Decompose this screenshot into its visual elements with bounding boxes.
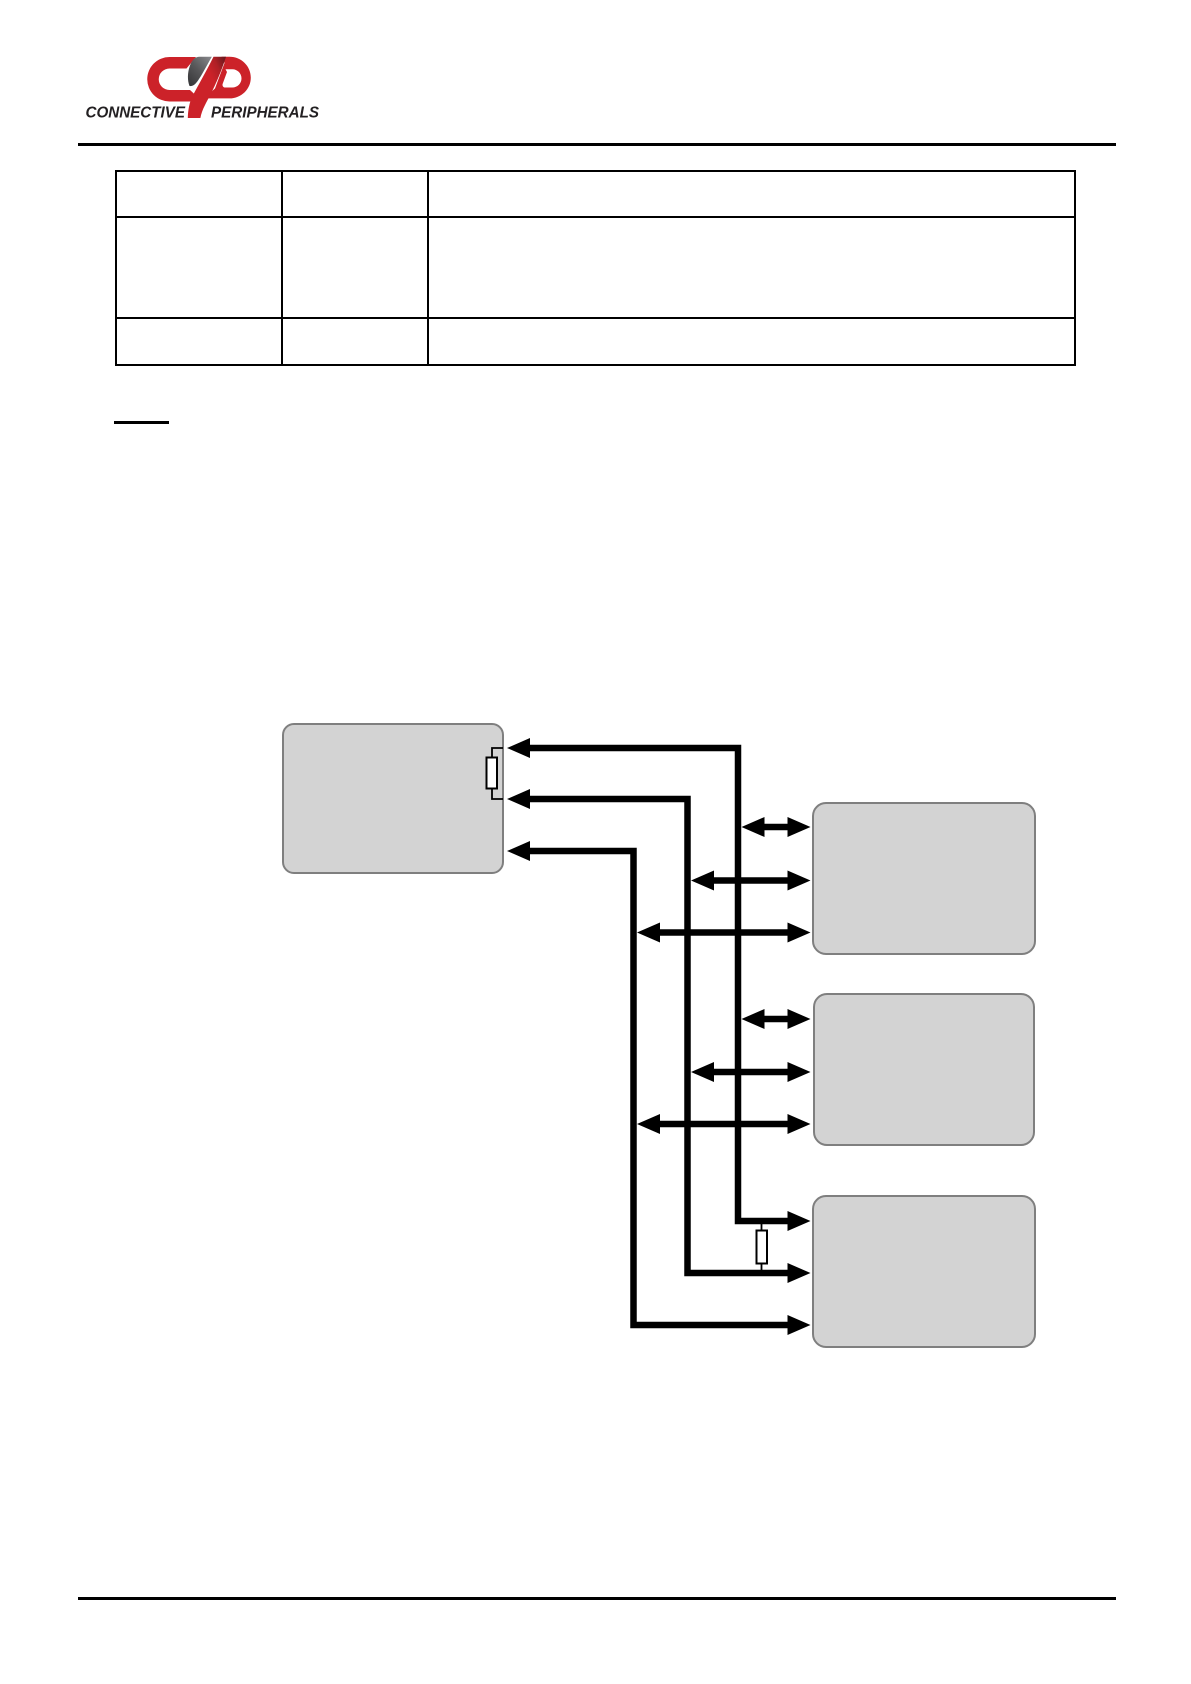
master box	[283, 724, 503, 873]
slave box 2	[814, 994, 1034, 1145]
logo Connective Peripherals	[80, 38, 330, 124]
arrowhead B-slave1 right	[788, 871, 811, 891]
logo C link	[147, 57, 202, 102]
arrowhead A-slave1 left	[637, 923, 660, 943]
wire bus C	[527, 748, 789, 1221]
logo P stem slash	[188, 57, 226, 118]
wire stub bus B to slave 1	[711, 877, 790, 884]
footer rule	[78, 1597, 1116, 1600]
arrowhead B-slave2 left	[691, 1062, 714, 1082]
arrowhead bus A into slave 3	[788, 1315, 811, 1335]
table column line 2	[427, 170, 429, 366]
resistor at master	[487, 758, 498, 789]
resistor at slave 3	[757, 1231, 768, 1264]
table column line 1	[281, 170, 283, 366]
arrowhead C-slave1 right	[788, 817, 811, 837]
logo gray ribbon	[188, 57, 212, 86]
note underline	[114, 421, 169, 424]
arrowhead bus C into master	[507, 738, 530, 758]
wire stub bus A to slave 2	[657, 1121, 790, 1128]
arrowhead bus C into slave 3	[788, 1211, 811, 1231]
table row line 2	[115, 317, 1076, 319]
wire stub bus C to slave 1	[762, 824, 791, 831]
arrowhead C-slave2 left	[742, 1009, 765, 1029]
arrowhead C-slave2 right	[788, 1009, 811, 1029]
arrowhead B-slave1 left	[691, 871, 714, 891]
arrowhead B-slave2 right	[788, 1062, 811, 1082]
arrowhead bus B into master	[507, 789, 530, 809]
wire stub bus B to slave 2	[711, 1069, 790, 1076]
wire stub bus A to slave 1	[657, 929, 790, 936]
slave box 1	[813, 803, 1035, 954]
arrowhead A-slave1 right	[788, 923, 811, 943]
arrowhead C-slave1 left	[742, 817, 765, 837]
arrowhead bus A into master	[507, 841, 530, 861]
arrowhead A-slave2 right	[788, 1114, 811, 1134]
table row line 1	[115, 216, 1076, 218]
wire resistor link at slave 3	[761, 1221, 763, 1273]
logo P bowl	[204, 57, 251, 99]
slave box 3	[813, 1196, 1035, 1347]
table outer border	[115, 170, 1076, 366]
wire bus A	[527, 851, 789, 1325]
wire resistor link at master	[492, 748, 503, 799]
arrowhead bus B into slave 3	[788, 1263, 811, 1283]
arrowhead A-slave2 left	[637, 1114, 660, 1134]
wire stub bus C to slave 2	[762, 1016, 791, 1023]
wire bus B	[527, 799, 789, 1273]
header rule	[78, 143, 1116, 146]
